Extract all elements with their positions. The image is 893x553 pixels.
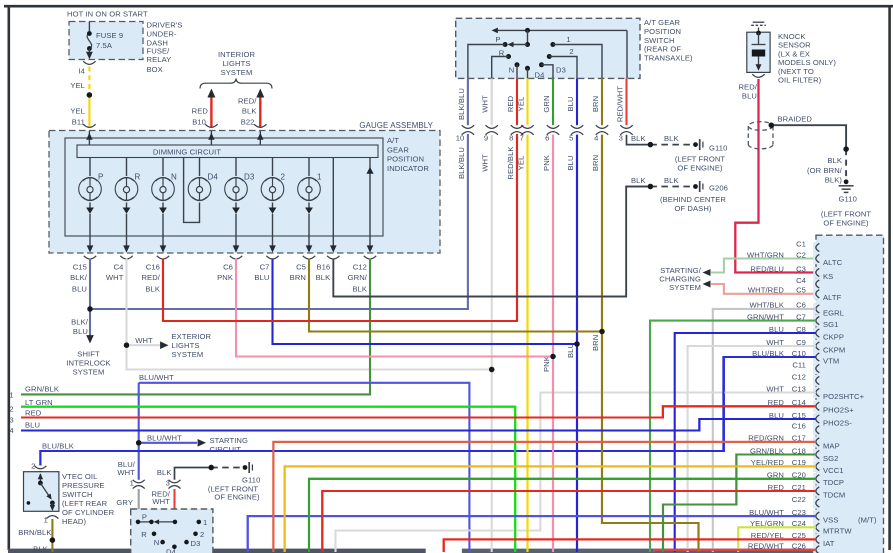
svg-text:GRN: GRN — [542, 95, 551, 112]
svg-text:INTERLOCK: INTERLOCK — [66, 359, 110, 368]
svg-text:B11: B11 — [72, 118, 85, 127]
svg-text:D3: D3 — [556, 65, 566, 74]
svg-text:RED: RED — [506, 95, 515, 112]
wire RED B10 to interior lights — [210, 96, 212, 128]
svg-text:BLK: BLK — [664, 134, 679, 143]
svg-text:5: 5 — [569, 133, 573, 142]
svg-text:GRY: GRY — [116, 498, 133, 507]
svg-text:BLK/: BLK/ — [70, 273, 88, 282]
svg-text:OIL FILTER): OIL FILTER) — [778, 76, 822, 85]
wire RED to ECM C21 TDCM — [322, 491, 816, 552]
svg-text:OF CYLINDER: OF CYLINDER — [62, 508, 115, 517]
svg-text:VTEC OIL: VTEC OIL — [62, 472, 97, 481]
svg-text:7.5A: 7.5A — [96, 41, 113, 50]
ECM pin C6 — [813, 303, 819, 314]
gear position console switch box — [131, 509, 213, 553]
wire BLU/WHT branch to starting circuit — [139, 442, 197, 444]
wire PNK over layer — [552, 135, 554, 552]
svg-text:2: 2 — [31, 462, 35, 471]
svg-text:I4: I4 — [78, 67, 85, 76]
svg-text:BLU: BLU — [566, 155, 575, 170]
wire YEL/GRN to ECM C24 MTRTW — [738, 527, 816, 552]
ECM pin C13 — [813, 387, 819, 398]
svg-text:BLK: BLK — [145, 284, 160, 293]
svg-text:LIGHTS: LIGHTS — [222, 59, 250, 68]
ECM pin C14 — [813, 401, 819, 412]
svg-text:VTM: VTM — [823, 356, 839, 365]
svg-text:CIRCUIT: CIRCUIT — [210, 445, 242, 454]
svg-text:1: 1 — [566, 35, 570, 44]
svg-text:1: 1 — [9, 391, 13, 400]
svg-text:BLU/BLK: BLU/BLK — [42, 442, 74, 451]
svg-text:C5: C5 — [796, 286, 806, 295]
svg-text:2: 2 — [9, 405, 13, 414]
ECM pin C8 — [813, 327, 819, 338]
svg-text:(LEFT FRONT: (LEFT FRONT — [675, 154, 726, 163]
indicator bulb D4 — [199, 158, 201, 177]
feed B11 into dimming circuit — [88, 131, 90, 145]
wire BLK/BLU from gauge C15 — [89, 259, 91, 310]
svg-text:WHT: WHT — [481, 154, 490, 172]
wire GRN/WHT to ECM C7 SG1 — [650, 321, 816, 552]
wire RED/GRN to ECM C17 MAP — [273, 442, 816, 552]
svg-text:EXTERIOR: EXTERIOR — [172, 332, 212, 341]
svg-text:WHT: WHT — [481, 95, 490, 113]
switch common feed line — [494, 29, 627, 31]
indicator bulb R — [126, 158, 128, 177]
svg-text:BLK: BLK — [352, 284, 367, 293]
wire BLU/WHT C23 over layer — [248, 516, 816, 552]
svg-text:1: 1 — [317, 172, 322, 181]
contact D4 — [525, 66, 530, 71]
svg-text:SYSTEM: SYSTEM — [669, 283, 701, 292]
svg-text:CKPM: CKPM — [823, 345, 845, 354]
connector pin 3 — [620, 125, 632, 128]
knock sensor case ground — [758, 28, 760, 34]
svg-text:STARTING: STARTING — [210, 436, 249, 445]
svg-text:9: 9 — [484, 133, 488, 142]
svg-text:BRAIDED: BRAIDED — [778, 114, 813, 123]
svg-text:BLK: BLK — [664, 176, 679, 185]
svg-text:RED/BLU: RED/BLU — [750, 264, 784, 273]
wire YEL pin 7 down — [526, 135, 528, 552]
ECM pin C10 — [813, 351, 819, 362]
svg-text:(BEHIND CENTER: (BEHIND CENTER — [660, 195, 726, 204]
wire BRN jog over layer — [602, 135, 699, 552]
svg-text:A/T GEAR: A/T GEAR — [644, 18, 681, 27]
svg-text:D4: D4 — [208, 172, 219, 181]
ECM pin C25 — [813, 534, 819, 545]
svg-text:2: 2 — [200, 530, 204, 539]
svg-text:BLK/: BLK/ — [71, 318, 89, 327]
svg-text:B10: B10 — [192, 118, 206, 127]
svg-text:GAUGE ASSEMBLY: GAUGE ASSEMBLY — [359, 121, 433, 130]
svg-text:RED/: RED/ — [141, 273, 160, 282]
svg-text:N: N — [154, 538, 160, 547]
wire YEL A/T switch pin 7 — [526, 78, 528, 125]
svg-text:SG2: SG2 — [823, 454, 839, 463]
ECM/PCM box — [816, 235, 884, 553]
svg-text:BRN: BRN — [591, 155, 600, 171]
wire BLU/WHT down to console connector 1 — [138, 443, 140, 480]
svg-text:8: 8 — [509, 133, 513, 142]
svg-text:P: P — [98, 172, 103, 181]
svg-text:R: R — [141, 530, 147, 539]
svg-text:WHT/GRN: WHT/GRN — [747, 250, 784, 259]
svg-text:BLU: BLU — [742, 92, 757, 101]
wire C12 column with diode up — [369, 158, 371, 250]
svg-text:ALTC: ALTC — [823, 258, 843, 267]
ECM pin C3 — [813, 267, 819, 278]
svg-text:BLK: BLK — [631, 134, 646, 143]
ECM pin C26 — [813, 544, 819, 553]
ECM pin C1 — [813, 242, 819, 253]
svg-text:C15: C15 — [73, 262, 87, 271]
contact R — [506, 54, 511, 59]
svg-text:B22: B22 — [241, 118, 255, 127]
connector C4 — [120, 256, 132, 259]
svg-text:B16: B16 — [316, 262, 330, 271]
wire BLK shield drain to ground G110 — [769, 123, 774, 128]
wire RED wire3 over layer — [21, 406, 816, 417]
contact N — [515, 62, 520, 67]
svg-text:R: R — [135, 172, 141, 181]
console switch contacts — [138, 521, 151, 523]
svg-text:SYSTEM: SYSTEM — [73, 368, 105, 377]
wire GRN/BLK gauge C12 to left edge wire 1 — [21, 259, 370, 395]
svg-text:1: 1 — [203, 518, 207, 527]
A/T gear position switch box — [456, 18, 640, 78]
ECM pin C15 — [813, 413, 819, 424]
svg-text:SENSOR: SENSOR — [778, 41, 811, 50]
svg-text:(NEXT TO: (NEXT TO — [778, 67, 814, 76]
A/T gear position indicator inner box — [65, 138, 383, 236]
svg-text:DIMMING CIRCUIT: DIMMING CIRCUIT — [153, 147, 221, 156]
ECM pin C17 — [813, 436, 819, 447]
connector pin 4 — [596, 125, 608, 128]
ECM pin C2 — [813, 253, 819, 264]
svg-text:BLK: BLK — [827, 156, 842, 165]
junction dots overlay — [87, 92, 92, 97]
wire YEL from fuse 9 to gauge B11 — [88, 67, 90, 96]
wire RED/YEL to ECM C25 IAT — [444, 539, 816, 552]
svg-text:(OR BRN/: (OR BRN/ — [807, 166, 843, 175]
svg-text:C16: C16 — [792, 422, 806, 431]
connector C6 — [230, 256, 242, 259]
wire WHT to ECM C13 — [336, 393, 817, 553]
svg-text:C11: C11 — [792, 360, 806, 369]
svg-text:WHT: WHT — [117, 468, 135, 477]
wire BLK gauge B16 to ground G206 — [333, 187, 650, 297]
svg-text:MTRTW: MTRTW — [823, 527, 852, 536]
wire GRN C20 over layer — [309, 479, 816, 552]
contact D3 — [539, 62, 544, 67]
contact 2 — [547, 54, 552, 59]
wire WHT A/T switch pin 9 — [491, 78, 493, 125]
svg-text:BLK: BLK — [242, 106, 257, 115]
indicator bulb N — [162, 158, 164, 177]
svg-text:C4: C4 — [796, 276, 806, 285]
svg-text:OF ENGINE): OF ENGINE) — [214, 492, 260, 501]
ECM pin C12 — [813, 375, 819, 386]
gauge assembly box — [49, 131, 440, 254]
svg-text:(LX & EX: (LX & EX — [778, 49, 810, 58]
svg-text:C7: C7 — [260, 262, 270, 271]
svg-text:3: 3 — [166, 479, 170, 488]
connector pin 7 — [521, 125, 533, 128]
feed B10 into dimming circuit — [210, 131, 212, 145]
wire LT GRN over layer — [21, 407, 515, 552]
wire BRN/BLK from VTEC pin 1 — [51, 519, 53, 552]
ECM pin C7 — [813, 315, 819, 326]
indicator bulb P — [89, 158, 91, 177]
connector 1 VTEC — [46, 516, 58, 519]
ground G110 (console) — [243, 465, 248, 470]
wire RED/BLK over layer — [163, 135, 517, 321]
wire BLK/BLU run C15 to A/T switch pin 10 — [90, 134, 468, 309]
svg-text:C22: C22 — [792, 495, 806, 504]
svg-text:4: 4 — [9, 426, 13, 435]
switch wiper (P position) — [527, 30, 529, 44]
VTEC oil pressure switch box — [24, 472, 59, 512]
svg-text:BRN: BRN — [591, 96, 600, 112]
svg-text:INTERIOR: INTERIOR — [218, 50, 255, 59]
svg-text:FUSE 9: FUSE 9 — [96, 31, 123, 40]
svg-text:PO2SHTC+: PO2SHTC+ — [823, 392, 865, 401]
svg-text:DRIVER'S: DRIVER'S — [147, 20, 183, 29]
svg-text:PHO2S-: PHO2S- — [823, 418, 852, 427]
svg-text:C6: C6 — [223, 262, 233, 271]
indicator bulb 2 — [272, 158, 274, 177]
svg-text:3: 3 — [9, 415, 13, 424]
wire RED/WHT into console switch — [173, 489, 175, 522]
svg-text:2: 2 — [569, 47, 573, 56]
svg-text:MAP: MAP — [823, 441, 840, 450]
svg-text:OF ENGINE): OF ENGINE) — [677, 164, 723, 173]
svg-text:A/T: A/T — [387, 136, 399, 145]
braided shield — [748, 122, 773, 131]
svg-text:WHT: WHT — [135, 336, 153, 345]
svg-text:GEAR: GEAR — [387, 145, 409, 154]
wire B16 column — [332, 158, 334, 250]
svg-text:FUSE/: FUSE/ — [147, 46, 171, 55]
wire RED/WHT to ECM C26 — [654, 550, 816, 552]
svg-text:EGRL: EGRL — [823, 308, 844, 317]
diode below bulb P — [86, 208, 94, 214]
wire BLU A/T switch pin 5 — [576, 78, 578, 125]
wire WHT/RED to ECM C5 ALTF — [711, 284, 816, 294]
contact P — [503, 42, 508, 47]
diode below bulb 2 — [269, 208, 277, 214]
svg-text:PRESSURE: PRESSURE — [62, 481, 105, 490]
ECM pin C20 — [813, 473, 819, 484]
wire BLU to ECM C8 CKPP — [675, 333, 816, 552]
svg-text:LT GRN: LT GRN — [25, 398, 53, 407]
svg-text:BLK: BLK — [316, 273, 331, 282]
svg-text:INDICATOR: INDICATOR — [387, 164, 429, 173]
connector I4 — [83, 61, 95, 64]
svg-text:7: 7 — [520, 133, 524, 142]
connector C15 — [84, 256, 96, 259]
svg-text:C1: C1 — [796, 239, 806, 248]
svg-text:LIGHTS: LIGHTS — [172, 341, 200, 350]
svg-text:OF DASH): OF DASH) — [674, 204, 711, 213]
connector 3 console — [169, 480, 181, 483]
connector pin 8 — [511, 125, 523, 128]
wire RED/WHT A/T switch pin 3 — [625, 78, 627, 125]
svg-text:BLU: BLU — [25, 421, 40, 430]
wire BLU horizontal over layer — [273, 343, 578, 345]
svg-text:BLK: BLK — [631, 176, 646, 185]
svg-text:1: 1 — [44, 516, 48, 525]
wire RED/GRN C17 over layer — [273, 442, 816, 552]
connector pin 10 — [462, 125, 474, 128]
svg-text:TRANSAXLE): TRANSAXLE) — [644, 54, 693, 63]
wire YEL over layer — [526, 135, 528, 552]
bottom window bar — [8, 549, 426, 553]
diode below bulb D3 — [232, 208, 240, 214]
wire BLU/WHT to ECM C23 VSS — [248, 516, 816, 552]
svg-text:6: 6 — [545, 133, 549, 142]
svg-text:G206: G206 — [709, 184, 728, 193]
svg-text:SG1: SG1 — [823, 320, 839, 329]
svg-text:(REAR OF: (REAR OF — [644, 45, 681, 54]
svg-text:POSITION: POSITION — [644, 27, 681, 36]
ECM pin C23 — [813, 511, 819, 522]
wire RED/BLK B22 to interior lights — [259, 96, 261, 128]
wire BLK/BLU branch to shift interlock system — [89, 309, 91, 339]
svg-text:C3: C3 — [796, 264, 806, 273]
feed B22 into dimming circuit — [259, 131, 261, 145]
wire BRN A/T switch pin 4 — [601, 78, 603, 125]
ground G110 (knock shield) earth symbol — [844, 179, 849, 184]
svg-text:R: R — [499, 48, 505, 57]
svg-text:C2: C2 — [796, 250, 806, 259]
svg-text:4: 4 — [594, 133, 598, 142]
svg-text:SYSTEM: SYSTEM — [221, 68, 253, 77]
dimming circuit box — [77, 145, 378, 158]
connector 1 console — [133, 480, 145, 483]
connector B11 — [83, 124, 95, 127]
svg-text:BLK: BLK — [157, 468, 172, 477]
svg-text:YEL: YEL — [517, 97, 526, 112]
wire YEL/RED to ECM C19 VCC1 — [285, 466, 816, 552]
wire PNK horizontal over layer — [236, 355, 553, 357]
wire BLU wire4 over layer — [21, 419, 816, 431]
svg-text:C4: C4 — [114, 262, 124, 271]
svg-text:CKPP: CKPP — [823, 332, 844, 341]
svg-text:C16: C16 — [146, 262, 160, 271]
svg-text:SWITCH: SWITCH — [62, 490, 93, 499]
fuse F9 7.5A — [88, 22, 90, 34]
ECM pin C19 — [813, 461, 819, 472]
wire WHT from gauge C4 — [125, 259, 127, 346]
wire WHT branch to exterior lights system — [127, 344, 161, 346]
ECM pin C9 — [813, 340, 819, 351]
ECM pin C24 — [813, 522, 819, 533]
wire RED/BLK run gauge C16 to A/T switch pin 8 — [163, 134, 517, 321]
svg-text:WHT/RED: WHT/RED — [748, 286, 785, 295]
svg-text:RED/WHT: RED/WHT — [616, 86, 625, 122]
ECM pin C22 — [813, 497, 819, 508]
svg-text:BLK): BLK) — [825, 175, 843, 184]
svg-text:BLK/BLU: BLK/BLU — [457, 147, 466, 179]
svg-text:GRN/: GRN/ — [348, 273, 368, 282]
svg-text:POSITION: POSITION — [387, 155, 424, 164]
connector pin 5 — [571, 125, 583, 128]
svg-text:BRN: BRN — [290, 273, 306, 282]
svg-text:D3: D3 — [244, 172, 255, 181]
wire BRN run gauge C5 to A/T switch pin 4 — [309, 259, 602, 332]
wire RED C21 over layer — [322, 491, 816, 552]
knock sensor box — [747, 32, 770, 72]
svg-text:BLU: BLU — [566, 96, 575, 111]
svg-text:P: P — [495, 35, 500, 44]
diode below bulb R — [123, 208, 131, 214]
svg-text:1: 1 — [130, 479, 134, 488]
svg-text:BRN: BRN — [591, 335, 600, 351]
svg-text:BLU: BLU — [566, 343, 575, 358]
contact 1 — [550, 42, 555, 47]
svg-text:BLK: BLK — [33, 545, 48, 553]
svg-text:N: N — [171, 172, 177, 181]
wire WHT run C4 to A/T switch pin 9 — [127, 345, 492, 369]
svg-text:BLU: BLU — [72, 284, 87, 293]
svg-text:YEL: YEL — [70, 107, 85, 116]
wire GRY into console switch — [138, 489, 140, 522]
svg-text:TDCM: TDCM — [823, 490, 845, 499]
svg-text:BRN/BLK: BRN/BLK — [18, 528, 51, 537]
svg-text:RELAY: RELAY — [147, 55, 172, 64]
svg-text:GRN/BLK: GRN/BLK — [25, 384, 59, 393]
svg-text:TDCP: TDCP — [823, 478, 844, 487]
svg-text:PNK: PNK — [542, 356, 551, 372]
svg-text:WHT: WHT — [152, 497, 170, 506]
svg-text:D3: D3 — [191, 539, 201, 548]
svg-text:PNK: PNK — [217, 273, 233, 282]
connector C12 — [364, 256, 376, 259]
svg-text:3: 3 — [619, 133, 623, 142]
svg-text:P: P — [142, 512, 147, 521]
svg-text:G110: G110 — [709, 143, 727, 152]
ECM pin C11 — [813, 363, 819, 374]
svg-text:KS: KS — [823, 272, 833, 281]
connector B10 — [205, 124, 217, 127]
svg-text:10: 10 — [456, 133, 465, 142]
wire WHT to ECM C9 CKPM — [688, 346, 816, 552]
wire D4 bulb return to dimming circuit — [184, 158, 200, 223]
wire BLK/BLU A/T switch pin 10 — [467, 78, 469, 125]
svg-text:ALTF: ALTF — [823, 293, 842, 302]
svg-text:SYSTEM: SYSTEM — [172, 350, 204, 359]
ECM pin C16 — [813, 424, 819, 435]
svg-text:OF ENGINE): OF ENGINE) — [823, 218, 869, 227]
svg-text:RED/: RED/ — [238, 96, 257, 105]
wire RED/BLU knock sensor to ECM C3 KS — [735, 79, 816, 273]
ECM pin C18 — [813, 449, 819, 460]
ground G206 — [693, 184, 698, 189]
svg-text:(M/T): (M/T) — [858, 516, 877, 525]
svg-text:UNDER-: UNDER- — [147, 29, 178, 38]
svg-text:C12: C12 — [353, 262, 367, 271]
ECM pin C5 — [813, 288, 819, 299]
connector 2 VTEC — [34, 466, 46, 469]
svg-text:RED: RED — [192, 106, 209, 115]
svg-text:BLK/BLU: BLK/BLU — [457, 88, 466, 120]
wire GRN/BLK to ECM C18 SG2 — [663, 455, 816, 553]
connector C5 — [303, 256, 315, 259]
connector pin 6 — [547, 125, 559, 128]
